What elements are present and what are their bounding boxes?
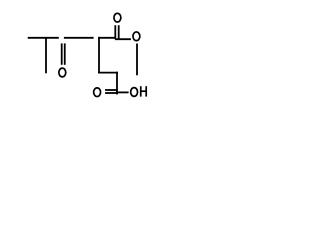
atom O acid carbonyl bbox=[94, 88, 101, 97]
wire bond CH3-C isopropyl bar bbox=[28, 37, 59, 39]
wire bond CH2-corner horizontal bottom bbox=[98, 72, 118, 74]
wire bond alphaC-esterC horizontal bbox=[98, 37, 115, 39]
atom H of OH right stroke bbox=[145, 86, 147, 96]
atom O ester single-bond bbox=[133, 32, 140, 41]
ketone C=O double bond line 2 bbox=[64, 43, 66, 64]
wire bond ketoneC-alphaC bbox=[64, 37, 94, 39]
ester C=O double bond line 1 bbox=[114, 25, 116, 39]
atom O ester carbonyl bbox=[114, 13, 121, 22]
wire bond alphaC-CH2 vertical bbox=[98, 37, 100, 74]
wire bond esterC-O bbox=[115, 38, 131, 40]
atom O ketone bbox=[59, 68, 66, 77]
acid C=O double bond line 2 bbox=[105, 92, 117, 94]
wire bond O-CH3 ester methyl bbox=[136, 44, 138, 76]
ester C=O double bond line 2 bbox=[118, 25, 120, 39]
atom H of OH crossbar bbox=[141, 90, 146, 92]
wire bond corner-acidC vertical bbox=[116, 72, 118, 95]
atom H of OH left stroke bbox=[140, 86, 142, 96]
ketone C=O double bond line 1 bbox=[61, 43, 63, 64]
acid C=O double bond line 1 bbox=[105, 89, 117, 91]
wire bond C-CH3 methyl down bbox=[45, 37, 47, 73]
atom O of OH bbox=[131, 88, 138, 97]
wire bond acidC-OH bbox=[116, 91, 129, 93]
